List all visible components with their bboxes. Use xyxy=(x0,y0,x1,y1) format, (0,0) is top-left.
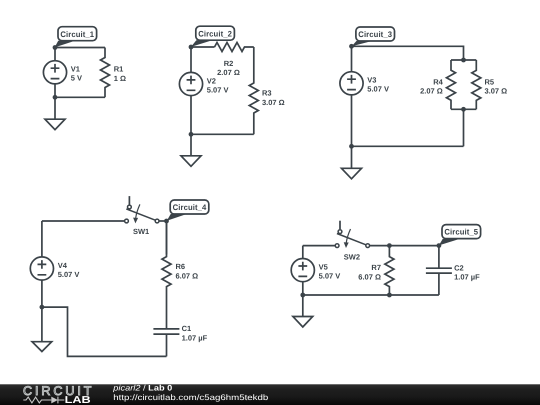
node dot c2 bottom xyxy=(189,132,194,137)
wire right branch c4 xyxy=(166,221,168,254)
resistor R4 xyxy=(447,60,456,109)
wire parallel top bar xyxy=(451,59,476,61)
svg-text:C2: C2 xyxy=(454,264,464,273)
wire bottom c4 xyxy=(42,307,167,356)
wire bottom c2 xyxy=(191,133,254,135)
svg-text:Circuit_2: Circuit_2 xyxy=(198,29,232,38)
wire top c5 xyxy=(303,245,335,247)
ground c2 xyxy=(181,134,201,166)
voltage source V5 xyxy=(291,246,314,295)
node dot c5 bottom R7 xyxy=(387,293,392,298)
wire parallel bottom bar xyxy=(451,108,476,110)
svg-text:http://circuitlab.com/c5ag6hm5: http://circuitlab.com/c5ag6hm5tekdb xyxy=(113,393,269,402)
capacitor C1 xyxy=(153,329,179,357)
svg-text:5 V: 5 V xyxy=(71,74,82,83)
wire bottom c3 xyxy=(352,145,464,147)
svg-text:3.07 Ω: 3.07 Ω xyxy=(262,98,285,107)
svg-text:5.07 V: 5.07 V xyxy=(207,85,229,94)
resistor R3 xyxy=(249,47,258,134)
resistor R2 xyxy=(215,43,254,52)
svg-text:5.07 V: 5.07 V xyxy=(319,271,341,280)
svg-text:SW1: SW1 xyxy=(133,227,149,236)
ground c1 xyxy=(45,97,65,129)
resistor R1 xyxy=(101,48,110,98)
flag Circuit_2 xyxy=(191,26,234,47)
svg-text:LAB: LAB xyxy=(65,395,91,405)
svg-text:R5: R5 xyxy=(485,77,495,86)
svg-text:SW2: SW2 xyxy=(344,252,360,261)
wire bottom c5 xyxy=(303,294,439,296)
svg-text:Circuit_3: Circuit_3 xyxy=(358,30,392,39)
logo resistor-diode squiggle xyxy=(23,397,64,404)
svg-text:R6: R6 xyxy=(176,262,186,271)
svg-text:V5: V5 xyxy=(319,262,328,271)
resistor R6 xyxy=(162,221,171,329)
svg-text:Circuit_5: Circuit_5 xyxy=(444,228,478,237)
svg-text:1.07 µF: 1.07 µF xyxy=(182,333,208,342)
wire top c1 xyxy=(55,47,105,49)
svg-text:R4: R4 xyxy=(433,77,443,86)
svg-text:2.07 Ω: 2.07 Ω xyxy=(217,68,240,77)
node dot c3 top xyxy=(349,44,354,49)
resistor R5 xyxy=(472,60,481,109)
node dot c5 C2 top xyxy=(437,243,442,248)
node dot c3 par bottom xyxy=(461,107,466,112)
voltage source V3 xyxy=(340,46,363,146)
svg-text:V4: V4 xyxy=(58,261,68,270)
voltage source V1 xyxy=(43,48,66,98)
svg-text:V2: V2 xyxy=(207,76,216,85)
ground c4 xyxy=(32,307,52,351)
capacitor C2 xyxy=(426,246,452,295)
svg-text:R2: R2 xyxy=(224,59,234,68)
svg-text:R1: R1 xyxy=(114,65,124,74)
resistor R7 xyxy=(385,246,394,295)
svg-text:R7: R7 xyxy=(371,263,381,272)
wire switch to C2 c5 xyxy=(370,245,439,247)
node dot c5 R7 top xyxy=(387,243,392,248)
node dot c3 bottom xyxy=(349,144,354,149)
flag Circuit_3 xyxy=(352,27,395,46)
svg-text:3.07 Ω: 3.07 Ω xyxy=(485,87,508,96)
svg-text:6.07 Ω: 6.07 Ω xyxy=(358,272,381,281)
svg-text:V1: V1 xyxy=(71,65,80,74)
svg-text:Circuit_4: Circuit_4 xyxy=(173,203,207,212)
wire right down c3 xyxy=(463,109,465,146)
wire switch to node c4 xyxy=(159,220,166,222)
node dot c5 bottom left xyxy=(300,293,305,298)
voltage source V2 xyxy=(179,47,202,134)
voltage source V4 xyxy=(30,221,53,307)
svg-text:picarl2 / Lab 0: picarl2 / Lab 0 xyxy=(112,384,173,393)
flag Circuit_5 xyxy=(439,225,481,246)
svg-text:C1: C1 xyxy=(182,324,192,333)
footer bar xyxy=(0,384,540,405)
svg-text:2.07 Ω: 2.07 Ω xyxy=(420,87,443,96)
wire top-left c2 xyxy=(191,46,215,48)
node dot c2 top xyxy=(189,45,194,50)
wire top c3 xyxy=(352,46,464,60)
svg-text:1 Ω: 1 Ω xyxy=(114,74,126,83)
node dot c3 par top xyxy=(461,58,466,63)
svg-text:5.07 V: 5.07 V xyxy=(58,270,80,279)
node dot c1 top xyxy=(53,45,58,50)
svg-text:R3: R3 xyxy=(262,89,272,98)
svg-text:V3: V3 xyxy=(367,76,376,85)
switch SW1 xyxy=(125,196,159,223)
node dot c4 switch xyxy=(164,219,169,224)
ground c3 xyxy=(342,146,362,179)
ground c5 xyxy=(293,295,313,327)
svg-text:1.07 µF: 1.07 µF xyxy=(454,272,480,281)
node dot c4 bottom xyxy=(40,305,45,310)
svg-text:Circuit_1: Circuit_1 xyxy=(60,30,94,39)
node dot c1 bottom xyxy=(53,95,58,100)
wire top c4 xyxy=(42,220,125,222)
switch SW2 xyxy=(335,221,369,248)
flag Circuit_1 xyxy=(55,27,97,48)
flag Circuit_4 xyxy=(167,200,209,221)
svg-text:6.07 Ω: 6.07 Ω xyxy=(176,271,199,280)
wire bottom c1 xyxy=(55,96,105,98)
svg-text:5.07 V: 5.07 V xyxy=(367,85,389,94)
